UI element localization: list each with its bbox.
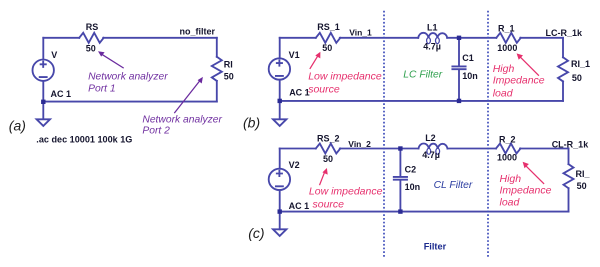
svg-text:LC Filter: LC Filter — [403, 70, 442, 81]
svg-text:load: load — [500, 197, 521, 209]
wire: a bottom rail — [43, 101, 217, 103]
resistor RS — [79, 33, 104, 43]
inductor L2 — [419, 144, 448, 149]
wire: c top rail segment 4 — [520, 148, 569, 150]
svg-text:10n: 10n — [405, 182, 421, 192]
wire: C2 lower lead — [399, 181, 401, 212]
wire: b top rail segment 1 — [280, 37, 316, 39]
wire: b left vertical above source V1 — [279, 38, 281, 59]
svg-text:V: V — [51, 50, 57, 60]
resistor R_2 — [496, 144, 521, 154]
junction b C1 top — [457, 36, 461, 40]
wire: a top rail left segment — [43, 37, 79, 39]
wire: a right vertical above RI — [216, 38, 218, 57]
svg-text:AC 1: AC 1 — [289, 87, 310, 97]
svg-text:AC 1: AC 1 — [289, 201, 310, 211]
svg-text:Port 2: Port 2 — [142, 126, 170, 137]
junction c C2 top — [398, 146, 402, 150]
svg-text:R_2: R_2 — [499, 134, 516, 144]
svg-text:1000: 1000 — [497, 153, 517, 163]
svg-text:L1: L1 — [427, 23, 438, 33]
svg-text:4.7µ: 4.7µ — [422, 150, 440, 160]
svg-text:Low impedance: Low impedance — [309, 186, 383, 198]
svg-text:50: 50 — [572, 73, 582, 83]
wire: c right vertical below RI_ — [568, 188, 570, 211]
resistor RI — [212, 57, 222, 81]
svg-text:RI_1: RI_1 — [571, 59, 590, 69]
wire: c top rail segment 3 — [448, 148, 497, 150]
voltage source V2 — [269, 169, 290, 190]
svg-text:4.7µ: 4.7µ — [423, 41, 441, 51]
svg-text:CL-R_1k: CL-R_1k — [552, 139, 590, 149]
arrow to R_1 value (b) — [517, 53, 539, 75]
svg-text:L2: L2 — [425, 133, 436, 143]
capacitor C1 — [452, 66, 465, 69]
svg-text:.ac dec 10001 100k 1G: .ac dec 10001 100k 1G — [36, 135, 132, 145]
svg-text:source: source — [308, 83, 340, 95]
wire: b top rail segment 4 — [520, 37, 563, 39]
wire: b left vertical below source V1 — [279, 80, 281, 119]
wire: c left vertical above source V2 — [279, 149, 281, 169]
svg-text:(b): (b) — [243, 114, 260, 130]
svg-text:Vin_2: Vin_2 — [348, 139, 371, 149]
svg-text:Low impedance: Low impedance — [308, 70, 382, 82]
wire: b top rail segment 3 — [447, 37, 496, 39]
svg-text:(c): (c) — [248, 225, 264, 241]
voltage source V — [33, 59, 54, 80]
wire: C2 upper lead — [399, 149, 401, 177]
wire: a top rail right segment — [103, 37, 217, 39]
resistor R_1 — [496, 33, 521, 43]
svg-text:Impedance: Impedance — [500, 185, 552, 197]
wire: c top rail segment 1 — [280, 148, 316, 150]
dotted separator line 2 — [487, 11, 489, 257]
svg-text:CL Filter: CL Filter — [434, 180, 473, 191]
svg-text:(a): (a) — [9, 118, 26, 134]
svg-text:RS_1: RS_1 — [317, 22, 340, 32]
svg-text:50: 50 — [224, 71, 234, 81]
junction a — [41, 100, 45, 104]
wire: b bottom rail — [280, 100, 563, 102]
arrow to RI — [174, 77, 203, 113]
svg-text:50: 50 — [577, 181, 587, 191]
wire: c bottom rail — [280, 211, 569, 213]
svg-text:High: High — [493, 63, 515, 75]
arrow to RS_2 value — [320, 168, 328, 185]
wire: a right vertical below RI — [216, 81, 218, 102]
wire: c top rail segment 2 — [340, 148, 419, 150]
wire: a left vertical above source V — [42, 38, 44, 60]
svg-text:RS_2: RS_2 — [317, 133, 340, 143]
svg-text:V1: V1 — [289, 50, 300, 60]
resistor RI_ — [564, 164, 574, 188]
resistor RS_2 — [316, 144, 341, 154]
wire: c right vertical above RI_ — [568, 149, 570, 165]
svg-text:1000: 1000 — [497, 43, 517, 53]
svg-text:Port 1: Port 1 — [88, 84, 115, 95]
svg-text:source: source — [313, 199, 345, 211]
svg-text:R_1: R_1 — [498, 24, 515, 34]
voltage source V1 — [269, 58, 290, 79]
svg-text:Filter: Filter — [424, 242, 447, 252]
svg-text:RI: RI — [224, 59, 233, 69]
svg-text:Impedance: Impedance — [493, 74, 545, 86]
junction b left — [278, 99, 282, 103]
arrow to RS_1 value — [310, 52, 321, 69]
svg-text:Network analyzer: Network analyzer — [88, 71, 168, 82]
ground a — [37, 119, 50, 126]
svg-text:High: High — [500, 173, 522, 185]
junction c left — [278, 209, 282, 213]
svg-text:C1: C1 — [462, 53, 474, 63]
junction c C2 bottom — [398, 209, 402, 213]
svg-text:no_filter: no_filter — [180, 27, 216, 37]
ground b — [273, 119, 286, 126]
wire: C1 upper lead — [458, 38, 460, 66]
capacitor C2 — [394, 177, 407, 180]
svg-text:RI_: RI_ — [576, 169, 591, 179]
svg-text:Network analyzer: Network analyzer — [142, 114, 222, 125]
resistor RI_1 — [558, 57, 568, 81]
wire: C1 lower lead — [458, 71, 460, 101]
svg-text:AC 1: AC 1 — [51, 89, 72, 99]
wire: b top rail segment 2 — [340, 37, 418, 39]
ground c — [273, 229, 286, 236]
dotted separator line 1 — [383, 11, 385, 257]
svg-text:10n: 10n — [462, 71, 478, 81]
inductor L1 — [418, 33, 447, 38]
svg-text:C2: C2 — [405, 165, 417, 175]
svg-text:50: 50 — [322, 43, 332, 53]
svg-text:Vin_1: Vin_1 — [349, 28, 372, 38]
svg-text:load: load — [493, 88, 514, 100]
wire: a left vertical below source V — [42, 81, 44, 119]
arrow to RS value — [98, 51, 124, 68]
arrow to R_2 value (c) — [523, 162, 545, 184]
resistor RS_1 — [316, 33, 341, 43]
svg-text:RS: RS — [86, 22, 99, 32]
svg-text:V2: V2 — [289, 160, 300, 170]
wire: b right vertical above RI_1 — [562, 38, 564, 58]
svg-text:50: 50 — [323, 154, 333, 164]
svg-text:50: 50 — [86, 44, 96, 54]
wire: b right vertical below RI_1 — [562, 81, 564, 101]
wire: c left vertical below source V2 — [279, 190, 281, 229]
svg-text:LC-R_1k: LC-R_1k — [546, 28, 584, 38]
junction b C1 bottom — [457, 99, 461, 103]
